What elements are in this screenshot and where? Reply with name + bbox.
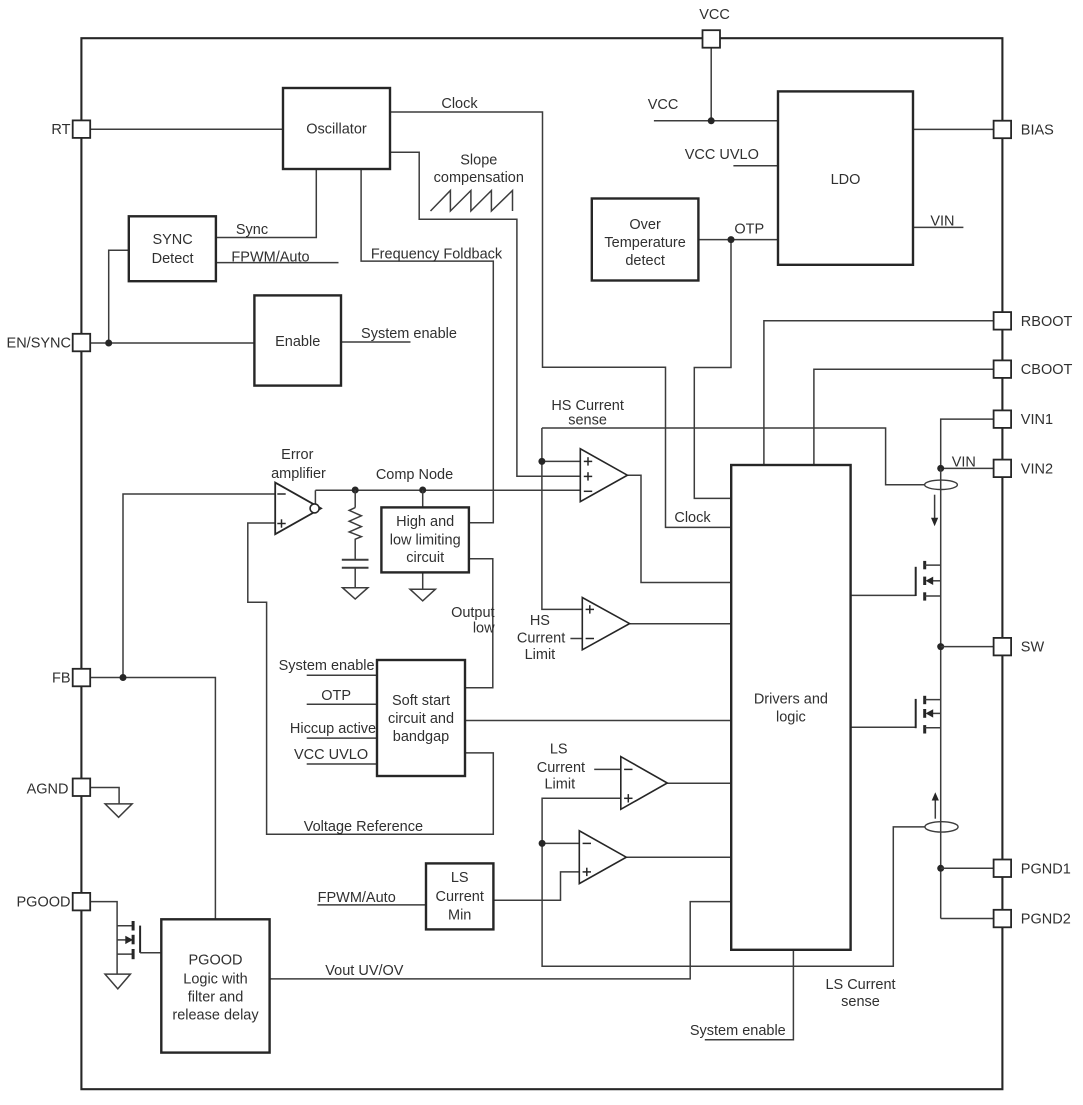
svg-text:VCC UVLO: VCC UVLO <box>685 147 759 163</box>
svg-text:High and: High and <box>396 514 454 530</box>
svg-text:logic: logic <box>776 710 806 726</box>
svg-text:VIN2: VIN2 <box>1021 461 1053 477</box>
svg-text:Soft start: Soft start <box>392 693 450 709</box>
svg-text:low: low <box>473 621 495 637</box>
svg-text:System enable: System enable <box>361 326 457 342</box>
svg-text:FPWM/Auto: FPWM/Auto <box>318 890 396 906</box>
svg-text:amplifier: amplifier <box>271 466 326 482</box>
svg-text:VIN1: VIN1 <box>1021 412 1053 428</box>
svg-text:Vout UV/OV: Vout UV/OV <box>325 963 404 979</box>
svg-text:compensation: compensation <box>434 170 524 186</box>
svg-text:Slope: Slope <box>460 153 497 169</box>
svg-text:Clock: Clock <box>674 510 711 526</box>
svg-text:BIAS: BIAS <box>1021 122 1054 138</box>
svg-text:Current: Current <box>517 630 565 646</box>
svg-text:VIN: VIN <box>952 455 976 471</box>
svg-text:Logic with: Logic with <box>183 972 247 988</box>
svg-text:AGND: AGND <box>27 782 69 798</box>
svg-text:SYNC: SYNC <box>152 232 192 248</box>
svg-text:Drivers and: Drivers and <box>754 692 828 708</box>
svg-text:Current: Current <box>537 760 585 776</box>
svg-text:sense: sense <box>841 994 880 1010</box>
svg-text:VIN: VIN <box>930 213 954 229</box>
svg-text:sense: sense <box>568 413 607 429</box>
svg-text:Limit: Limit <box>525 647 556 663</box>
svg-text:release delay: release delay <box>172 1008 259 1024</box>
svg-text:LDO: LDO <box>831 172 861 188</box>
svg-text:FB: FB <box>52 671 71 687</box>
svg-text:OTP: OTP <box>321 688 351 704</box>
svg-text:filter and: filter and <box>188 990 244 1006</box>
svg-text:circuit: circuit <box>406 550 444 566</box>
svg-text:detect: detect <box>625 253 665 269</box>
svg-text:Enable: Enable <box>275 334 320 350</box>
svg-text:Voltage Reference: Voltage Reference <box>304 819 423 835</box>
svg-text:Temperature: Temperature <box>604 235 685 251</box>
svg-text:RT: RT <box>51 122 70 138</box>
svg-text:Sync: Sync <box>236 222 268 238</box>
svg-text:LS: LS <box>550 741 568 757</box>
svg-text:Limit: Limit <box>544 777 575 793</box>
svg-text:VCC UVLO: VCC UVLO <box>294 747 368 763</box>
svg-text:low limiting: low limiting <box>390 533 461 549</box>
svg-text:Frequency Foldback: Frequency Foldback <box>371 246 503 262</box>
svg-text:HS: HS <box>530 613 550 629</box>
svg-text:System enable: System enable <box>279 658 375 674</box>
svg-text:Min: Min <box>448 908 471 924</box>
svg-text:LS Current: LS Current <box>825 977 895 993</box>
svg-text:Error: Error <box>281 447 313 463</box>
svg-text:PGOOD: PGOOD <box>17 895 71 911</box>
svg-text:Oscillator: Oscillator <box>306 122 367 138</box>
svg-text:bandgap: bandgap <box>393 729 449 745</box>
svg-text:Output: Output <box>451 605 495 621</box>
svg-text:Hiccup active: Hiccup active <box>290 721 376 737</box>
svg-text:PGND2: PGND2 <box>1021 912 1071 928</box>
svg-text:Over: Over <box>629 217 661 233</box>
svg-text:RBOOT: RBOOT <box>1021 314 1073 330</box>
svg-text:FPWM/Auto: FPWM/Auto <box>231 250 309 266</box>
svg-text:EN/SYNC: EN/SYNC <box>7 336 71 352</box>
svg-text:PGND1: PGND1 <box>1021 861 1071 877</box>
svg-text:LS: LS <box>451 870 469 886</box>
svg-text:circuit and: circuit and <box>388 711 454 727</box>
svg-text:OTP: OTP <box>734 222 764 238</box>
svg-text:PGOOD: PGOOD <box>189 953 243 969</box>
svg-text:System enable: System enable <box>690 1023 786 1039</box>
svg-text:Clock: Clock <box>441 96 478 112</box>
svg-text:VCC: VCC <box>648 97 679 113</box>
svg-text:SW: SW <box>1021 640 1045 656</box>
svg-text:VCC: VCC <box>699 7 730 23</box>
svg-text:CBOOT: CBOOT <box>1021 362 1073 378</box>
svg-text:Current: Current <box>436 889 484 905</box>
svg-text:Comp Node: Comp Node <box>376 467 453 483</box>
svg-text:Detect: Detect <box>152 251 194 267</box>
